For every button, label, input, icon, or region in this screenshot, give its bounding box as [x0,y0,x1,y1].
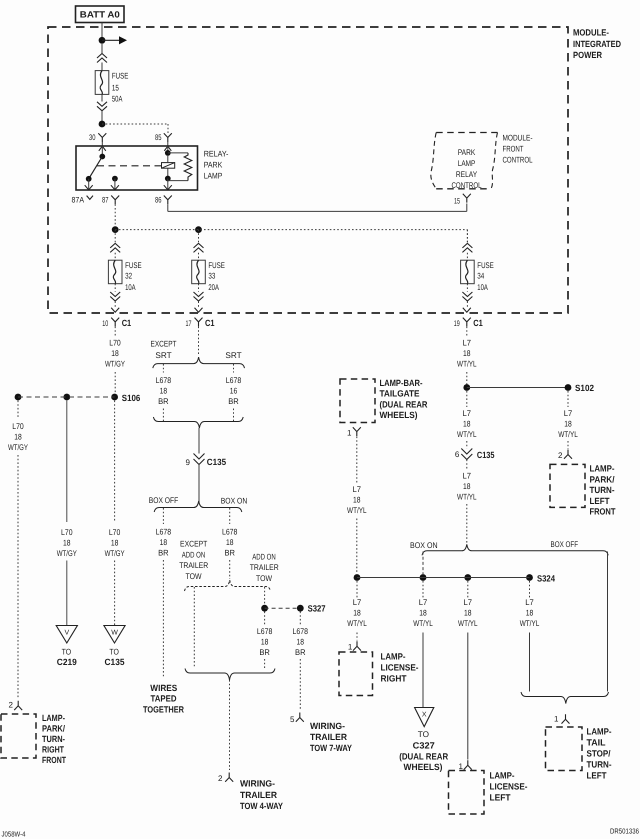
svg-text:WT/GY: WT/GY [57,549,77,558]
svg-text:BR: BR [158,397,169,406]
svg-text:LICENSE-: LICENSE- [490,782,528,792]
svg-text:V: V [64,630,69,637]
svg-text:C135: C135 [477,450,495,460]
svg-text:WT/YL: WT/YL [457,493,477,502]
svg-text:18: 18 [463,349,471,358]
svg-text:TRAILER: TRAILER [310,732,347,742]
svg-text:FUSE: FUSE [125,261,142,270]
svg-text:FRONT: FRONT [42,755,66,765]
svg-text:PARK: PARK [458,148,476,157]
svg-text:WT/YL: WT/YL [457,430,477,439]
svg-text:18: 18 [526,609,534,618]
svg-text:BOX ON: BOX ON [410,541,438,550]
svg-text:LAMP: LAMP [458,159,476,168]
svg-text:34: 34 [477,271,484,280]
svg-text:BATT A0: BATT A0 [80,10,120,20]
svg-text:MODULE-: MODULE- [573,27,609,37]
svg-text:15: 15 [454,196,460,205]
svg-text:18: 18 [564,420,572,429]
svg-text:TRAILER: TRAILER [179,561,208,570]
svg-text:BR: BR [158,549,169,558]
svg-text:STOP/: STOP/ [587,749,611,759]
svg-text:WT/GY: WT/GY [105,549,125,558]
svg-text:LAMP-: LAMP- [42,713,65,723]
svg-text:SRT: SRT [225,351,241,360]
svg-text:18: 18 [160,538,168,547]
svg-text:C1: C1 [205,318,215,328]
svg-text:POWER: POWER [573,50,602,60]
svg-text:BR: BR [228,397,239,406]
svg-text:50A: 50A [112,95,123,104]
svg-text:1: 1 [347,429,352,438]
svg-text:BOX OFF: BOX OFF [551,540,579,549]
svg-text:LAMP-BAR-: LAMP-BAR- [380,378,423,388]
svg-text:30: 30 [89,133,96,142]
svg-text:20A: 20A [208,283,219,292]
svg-text:2: 2 [558,451,563,460]
svg-text:L70: L70 [109,528,121,537]
svg-text:TURN-: TURN- [42,734,65,744]
svg-text:32: 32 [125,271,132,280]
svg-text:18: 18 [297,638,305,647]
svg-text:33: 33 [208,271,215,280]
svg-text:ADD ON: ADD ON [182,551,206,560]
svg-text:L7: L7 [353,485,362,494]
svg-text:1: 1 [348,643,353,652]
svg-text:WT/YL: WT/YL [520,619,540,628]
svg-text:18: 18 [261,638,269,647]
svg-text:WT/YL: WT/YL [457,360,477,369]
svg-text:FUSE: FUSE [112,72,129,81]
svg-text:LEFT: LEFT [590,496,610,506]
svg-text:10A: 10A [477,283,488,292]
svg-text:WT/YL: WT/YL [413,619,433,628]
svg-text:S324: S324 [537,573,555,583]
svg-text:18: 18 [464,609,472,618]
svg-text:S106: S106 [122,393,141,403]
svg-text:L678: L678 [226,376,242,385]
svg-text:L70: L70 [109,339,121,348]
svg-text:BR: BR [224,549,235,558]
svg-text:CONTROL: CONTROL [452,181,482,190]
svg-text:L7: L7 [525,598,534,607]
svg-text:L678: L678 [156,376,172,385]
svg-text:WIRING-: WIRING- [310,721,345,731]
svg-text:18: 18 [111,539,119,548]
svg-text:WIRING-: WIRING- [240,779,275,789]
svg-text:1: 1 [554,715,559,724]
svg-text:LICENSE-: LICENSE- [381,662,419,672]
svg-text:DR501336: DR501336 [610,827,639,836]
svg-text:FUSE: FUSE [477,261,494,270]
svg-text:2: 2 [218,774,223,783]
svg-text:TO: TO [109,648,119,657]
svg-text:18: 18 [63,539,71,548]
svg-text:CONTROL: CONTROL [503,156,533,165]
svg-text:RIGHT: RIGHT [42,745,64,755]
svg-text:18: 18 [226,538,234,547]
svg-text:ADD ON: ADD ON [252,553,276,562]
svg-text:C135: C135 [105,657,125,667]
svg-text:TO: TO [418,730,429,739]
svg-text:18: 18 [463,420,471,429]
svg-text:L70: L70 [12,422,24,431]
svg-text:C219: C219 [57,657,77,667]
svg-text:C327: C327 [413,740,435,750]
svg-text:INTEGRATED: INTEGRATED [573,39,621,49]
svg-text:TAIL: TAIL [587,738,606,748]
svg-text:TOW 4-WAY: TOW 4-WAY [240,801,283,811]
svg-text:L7: L7 [463,472,472,481]
svg-text:L678: L678 [293,627,309,636]
svg-text:J058W-4: J058W-4 [2,830,26,839]
svg-text:S327: S327 [308,604,326,614]
svg-text:L7: L7 [463,339,472,348]
svg-text:10A: 10A [125,283,136,292]
svg-text:L678: L678 [156,528,172,537]
svg-text:LEFT: LEFT [587,771,607,781]
svg-text:1: 1 [459,762,464,771]
svg-text:TOW: TOW [256,574,272,583]
svg-text:L7: L7 [419,598,428,607]
svg-text:LAMP-: LAMP- [590,463,615,473]
svg-text:86: 86 [155,195,162,204]
svg-text:PARK/: PARK/ [590,474,615,484]
svg-text:TOGETHER: TOGETHER [143,705,184,715]
svg-text:TAPED: TAPED [151,694,177,704]
svg-text:85: 85 [155,133,162,142]
svg-text:TOW 7-WAY: TOW 7-WAY [310,743,352,753]
svg-text:FRONT: FRONT [590,507,616,517]
svg-text:PARK/: PARK/ [42,724,65,734]
svg-text:X: X [422,712,427,719]
svg-text:L678: L678 [222,528,238,537]
svg-text:17: 17 [186,319,192,328]
svg-text:WT/GY: WT/GY [105,360,125,369]
svg-text:EXCEPT: EXCEPT [180,540,207,549]
svg-text:BOX OFF: BOX OFF [149,496,179,505]
svg-text:W: W [111,630,118,637]
svg-text:TURN-: TURN- [587,760,612,770]
svg-text:18: 18 [111,349,119,358]
svg-text:WHEELS): WHEELS) [380,410,418,420]
svg-text:EXCEPT: EXCEPT [151,340,177,349]
svg-text:TRAILER: TRAILER [250,563,279,572]
svg-text:RELAY-: RELAY- [204,150,229,159]
svg-text:18: 18 [463,482,471,491]
svg-text:18: 18 [14,433,22,442]
svg-text:87: 87 [102,195,109,204]
svg-text:LAMP-: LAMP- [490,770,515,780]
svg-text:TO: TO [62,648,72,657]
svg-text:TOW: TOW [186,572,202,581]
svg-text:9: 9 [186,458,191,467]
svg-text:WT/YL: WT/YL [458,619,478,628]
svg-text:RIGHT: RIGHT [381,673,407,683]
svg-text:BR: BR [259,648,270,657]
svg-text:WT/GY: WT/GY [8,443,28,452]
svg-text:WT/YL: WT/YL [347,619,367,628]
svg-text:LEFT: LEFT [490,793,511,803]
svg-text:19: 19 [454,319,460,328]
svg-text:LAMP-: LAMP- [587,727,612,737]
svg-text:TURN-: TURN- [590,485,615,495]
svg-text:TAILGATE: TAILGATE [380,389,420,399]
svg-text:MODULE-: MODULE- [503,133,533,142]
svg-text:18: 18 [353,496,361,505]
svg-text:87A: 87A [72,195,85,204]
svg-text:(DUAL REAR: (DUAL REAR [380,400,428,410]
svg-text:L7: L7 [564,409,573,418]
svg-text:18: 18 [419,609,427,618]
svg-text:WT/YL: WT/YL [558,430,578,439]
svg-text:FRONT: FRONT [503,144,524,153]
svg-text:S102: S102 [575,383,594,393]
svg-text:(DUAL REAR: (DUAL REAR [399,751,448,761]
svg-text:BOX ON: BOX ON [221,497,248,506]
svg-text:WHEELS): WHEELS) [404,762,443,772]
svg-text:SRT: SRT [155,351,171,360]
svg-text:BR: BR [295,648,306,657]
svg-text:LAMP-: LAMP- [381,651,406,661]
svg-text:PARK: PARK [204,161,223,170]
svg-text:L70: L70 [61,528,73,537]
svg-text:C1: C1 [122,318,132,328]
svg-text:5: 5 [290,715,295,724]
svg-text:FUSE: FUSE [208,261,225,270]
svg-text:16: 16 [230,387,238,396]
svg-text:RELAY: RELAY [456,170,478,179]
svg-text:C1: C1 [473,318,483,328]
svg-text:18: 18 [353,609,361,618]
svg-text:WT/YL: WT/YL [347,506,367,515]
svg-text:L678: L678 [257,627,273,636]
svg-text:LAMP: LAMP [204,172,223,181]
svg-text:6: 6 [455,450,460,459]
svg-text:10: 10 [102,319,108,328]
svg-text:L7: L7 [463,409,472,418]
svg-text:TRAILER: TRAILER [240,790,277,800]
svg-text:L7: L7 [353,598,362,607]
svg-text:C135: C135 [207,457,226,467]
svg-text:15: 15 [112,84,119,93]
svg-text:18: 18 [160,387,168,396]
svg-text:WIRES: WIRES [150,683,177,693]
svg-text:L7: L7 [464,598,473,607]
svg-text:2: 2 [9,700,14,709]
